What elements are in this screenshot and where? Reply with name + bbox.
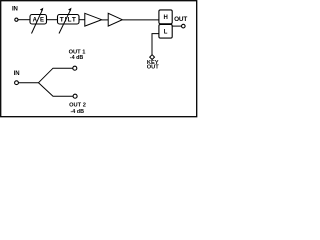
wire <box>18 19 30 21</box>
wire <box>18 82 38 84</box>
splitter branch upper <box>39 68 73 83</box>
variable arrow (attenuator) <box>32 8 44 34</box>
svg-text:H: H <box>164 15 168 21</box>
tilt box TILT <box>58 15 80 25</box>
wire <box>102 19 109 21</box>
terminal OUT <box>182 24 186 28</box>
wire (L to key out) <box>152 34 159 55</box>
variable arrow (tilt) <box>59 8 72 34</box>
node OUT 1 label <box>69 50 86 62</box>
svg-text:OUT: OUT <box>147 64 160 70</box>
wire <box>122 19 159 21</box>
terminal OUT 1 <box>73 66 77 70</box>
node OUT 2 label <box>69 103 86 115</box>
svg-text:OUT: OUT <box>174 16 187 23</box>
attenuator box ATT <box>30 15 47 25</box>
svg-text:TILT: TILT <box>60 17 77 24</box>
svg-text:IN: IN <box>12 7 18 13</box>
wire <box>172 25 182 27</box>
wire <box>47 19 58 21</box>
wire <box>79 19 85 21</box>
svg-text:OUT 2: OUT 2 <box>69 103 86 109</box>
diplexer L cell <box>159 24 172 38</box>
terminal IN (bottom) <box>15 81 19 85</box>
svg-text:IN: IN <box>14 71 20 77</box>
border frame <box>1 1 197 117</box>
terminal OUT 2 <box>73 94 77 98</box>
splitter branch lower <box>39 83 74 97</box>
amplifier 1 <box>85 13 102 26</box>
amplifier 2 <box>108 13 122 26</box>
svg-text:-4 dB: -4 dB <box>70 55 84 61</box>
node KEY OUT label <box>147 60 160 71</box>
terminal IN (top) <box>15 18 18 21</box>
terminal KEY OUT (diamond) <box>150 55 155 60</box>
diplexer H cell <box>159 10 172 24</box>
svg-text:L: L <box>164 30 168 36</box>
svg-text:-4 dB: -4 dB <box>71 109 85 115</box>
svg-text:E: E <box>40 18 44 24</box>
